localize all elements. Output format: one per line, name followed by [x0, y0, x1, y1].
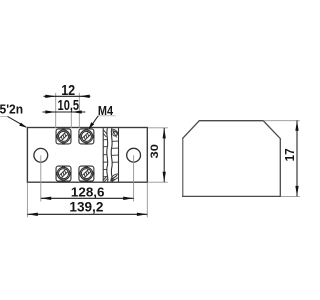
extension line 30 bottom [148, 181, 168, 183]
dimension line 17 [296, 120, 298, 196]
break hatch rungs [103, 130, 118, 181]
break top loop [112, 129, 118, 137]
extension line 12 right [78, 93, 80, 128]
label M4 leader [98, 115, 116, 117]
extension line body right [146, 183, 148, 218]
label 5'2n leader [0, 115, 8, 117]
svg-text:10,5: 10,5 [58, 98, 80, 114]
screw terminal top-left [56, 128, 72, 144]
extension line body left [26, 183, 28, 218]
extension line hole left [40, 155, 42, 201]
dimension line 128,6 [41, 197, 134, 199]
body outline front view [27, 128, 147, 183]
extension line 17 bottom [281, 195, 300, 197]
svg-text:M4: M4 [98, 103, 114, 118]
svg-text:139,2: 139,2 [69, 199, 103, 215]
svg-text:17: 17 [282, 148, 297, 161]
break line left boundary [102, 128, 104, 182]
svg-text:12: 12 [61, 83, 75, 99]
break bottom loop [111, 174, 118, 182]
break wavy line 1 [107, 128, 108, 182]
screw terminal bottom-left [56, 166, 72, 182]
screw terminal bottom-right [78, 166, 94, 182]
extension line 10,5 right [70, 109, 72, 128]
mounting hole left [34, 148, 48, 162]
svg-text:128,6: 128,6 [71, 184, 105, 199]
dimension line 12 [44, 95, 91, 97]
svg-text:30: 30 [149, 144, 161, 158]
extension line 17 top [264, 120, 300, 122]
dimension line 30 [163, 128, 165, 182]
extension line 12 left [55, 93, 57, 128]
screw terminal top-right [78, 128, 94, 144]
break line right boundary [118, 128, 120, 182]
break wavy line 2 [111, 128, 112, 182]
svg-text:5'2n: 5'2n [0, 103, 23, 117]
mounting hole right [127, 148, 141, 162]
side view left edge re-stroke [182, 139, 184, 196]
side view outline [183, 121, 281, 197]
dimension line 139,2 [27, 213, 147, 215]
dimension line 10,5 [43, 111, 86, 113]
extension line hole right [133, 155, 135, 201]
extension line 30 top [148, 127, 168, 129]
